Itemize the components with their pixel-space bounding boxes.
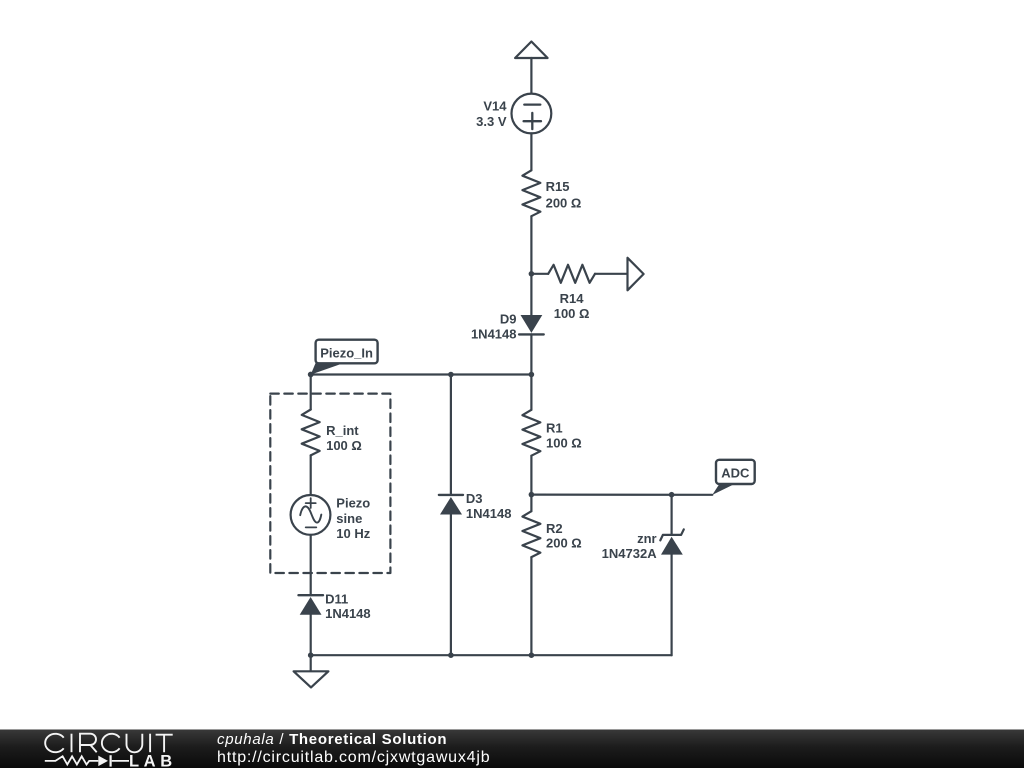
svg-text:100 Ω: 100 Ω: [326, 438, 362, 453]
svg-text:LAB: LAB: [129, 753, 177, 768]
diode D3: [439, 491, 512, 521]
wire: [310, 375, 312, 410]
resistor R14: [531, 265, 595, 321]
voltage source V14: [476, 94, 551, 134]
bottom wire: [311, 654, 672, 656]
svg-text:D11: D11: [325, 592, 348, 607]
wire: [530, 58, 532, 94]
svg-text:Piezo_In: Piezo_In: [320, 346, 373, 361]
wire: [310, 615, 312, 656]
power flag VDD: [515, 42, 548, 59]
wire: [530, 557, 532, 655]
node junction: [448, 652, 454, 658]
wire: [450, 375, 452, 495]
svg-text:R15: R15: [546, 179, 570, 194]
output flag: [628, 258, 644, 291]
flag ADC: [712, 460, 754, 495]
wire: [531, 494, 712, 496]
wire: [311, 373, 532, 375]
svg-text:D9: D9: [500, 312, 517, 327]
node junction: [529, 652, 535, 658]
svg-text:200 Ω: 200 Ω: [546, 195, 582, 210]
node junction: [529, 372, 535, 378]
svg-text:R_int: R_int: [326, 423, 359, 438]
wire: [670, 495, 672, 535]
svg-text:Piezo: Piezo: [336, 496, 370, 511]
svg-text:100 Ω: 100 Ω: [554, 306, 590, 321]
svg-text:ADC: ADC: [721, 466, 750, 481]
diode D11: [299, 592, 371, 622]
svg-text:znr: znr: [637, 531, 657, 546]
node junction: [448, 372, 454, 378]
CircuitLab logo: [0, 730, 200, 768]
wire: [530, 133, 532, 170]
node Piezo_In: [308, 340, 378, 378]
svg-text:1N4148: 1N4148: [471, 327, 517, 342]
wire: [670, 555, 672, 656]
footer bar: [0, 729, 1024, 768]
wire: [530, 456, 532, 512]
svg-text:R1: R1: [546, 421, 563, 436]
svg-text:R14: R14: [560, 291, 585, 306]
svg-text:sine: sine: [336, 511, 362, 526]
svg-text:V14: V14: [483, 99, 507, 114]
svg-text:1N4148: 1N4148: [325, 606, 371, 621]
svg-text:100 Ω: 100 Ω: [546, 435, 582, 450]
node junction: [308, 652, 314, 658]
resistor R2: [522, 511, 581, 557]
svg-text:1N4148: 1N4148: [466, 506, 512, 521]
source Piezo sine: [291, 495, 371, 541]
node junction: [669, 492, 675, 498]
svg-text:10 Hz: 10 Hz: [336, 526, 370, 541]
svg-text:D3: D3: [466, 491, 483, 506]
node junction: [529, 271, 535, 277]
footer text: [217, 731, 490, 767]
wire: [530, 216, 532, 315]
ground: [294, 655, 329, 687]
resistor R1: [522, 410, 581, 456]
resistor R_int: [302, 410, 362, 456]
svg-text:1N4732A: 1N4732A: [602, 546, 658, 561]
wire: [450, 515, 452, 656]
wire: [530, 334, 532, 409]
wire: [310, 455, 312, 495]
wire: [310, 535, 312, 595]
resistor R15: [522, 170, 581, 216]
svg-text:3.3 V: 3.3 V: [476, 114, 507, 129]
dashed source box: [270, 394, 390, 573]
node junction: [529, 492, 535, 498]
wire: [595, 273, 628, 275]
diode D9: [471, 312, 544, 342]
svg-text:R2: R2: [546, 521, 563, 536]
zener diode znr: [602, 529, 684, 561]
svg-text:200 Ω: 200 Ω: [546, 536, 582, 551]
